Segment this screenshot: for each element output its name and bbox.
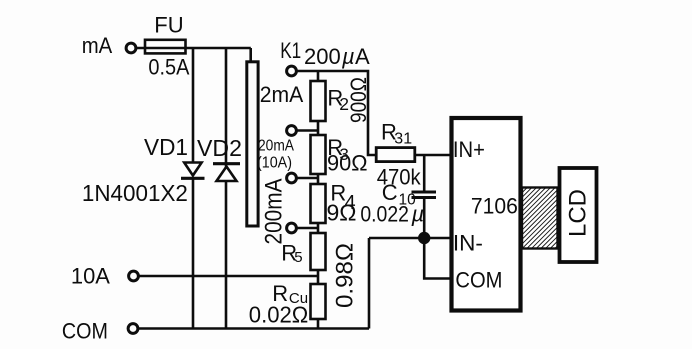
svg-text:K1: K1 — [280, 38, 301, 63]
svg-text:2mA: 2mA — [260, 82, 304, 107]
switch K1 bar — [247, 62, 258, 226]
svg-text:9Ω: 9Ω — [327, 200, 357, 226]
svg-text:VD1: VD1 — [144, 134, 188, 160]
resistor R3 — [311, 135, 326, 174]
wire — [139, 275, 319, 278]
op-amp U1 7106 box — [452, 118, 521, 311]
svg-text:7106: 7106 — [471, 194, 518, 219]
svg-text:200mA: 200mA — [261, 179, 288, 245]
svg-text:200: 200 — [304, 44, 341, 69]
fuse FU — [145, 40, 186, 54]
svg-text:0.98Ω: 0.98Ω — [332, 243, 359, 308]
diode VD2 — [225, 48, 228, 167]
wire — [317, 174, 320, 184]
svg-text:VD2: VD2 — [197, 135, 242, 161]
node contact 2mA — [287, 126, 297, 136]
terminal 10A — [129, 271, 139, 281]
wire — [297, 177, 319, 180]
capacitor C10 — [412, 191, 437, 194]
wire — [415, 154, 450, 157]
junction dot — [419, 233, 429, 243]
wire — [249, 48, 252, 62]
svg-text:µ: µ — [341, 44, 355, 69]
svg-text:0.022: 0.022 — [360, 202, 409, 227]
svg-text:20mA: 20mA — [258, 138, 295, 155]
node contact 200mA — [287, 223, 297, 233]
svg-text:IN+: IN+ — [453, 137, 485, 162]
svg-text:10A: 10A — [71, 264, 110, 289]
wire — [368, 238, 371, 329]
wire — [423, 199, 426, 238]
svg-text:COM: COM — [62, 319, 108, 344]
wire — [423, 155, 426, 191]
wire — [369, 237, 450, 240]
node K1 contact 200uA — [287, 66, 297, 76]
wire — [317, 121, 320, 135]
LCD connector hatch — [522, 188, 558, 249]
wire — [317, 71, 320, 81]
resistor R5 — [311, 233, 326, 270]
svg-text:90Ω: 90Ω — [327, 151, 368, 176]
svg-text:(10A): (10A) — [257, 155, 292, 172]
terminal COM — [128, 324, 138, 334]
LCD box — [560, 168, 597, 262]
svg-text:0.5A: 0.5A — [148, 55, 189, 80]
node contact 20mA — [287, 173, 297, 183]
svg-text:COM: COM — [455, 268, 502, 293]
svg-text:0.02Ω: 0.02Ω — [249, 302, 308, 328]
diode VD1 — [192, 48, 195, 163]
wire — [317, 270, 320, 284]
svg-text:900Ω: 900Ω — [346, 77, 371, 123]
wire — [297, 71, 377, 155]
wire — [297, 129, 319, 132]
svg-text:A: A — [355, 44, 370, 69]
wire — [317, 319, 320, 329]
svg-text:1N4001X2: 1N4001X2 — [82, 180, 188, 206]
wire — [136, 47, 251, 50]
svg-text:IN-: IN- — [453, 231, 483, 256]
resistor R31 — [376, 148, 415, 162]
svg-text:5: 5 — [294, 249, 302, 266]
svg-text:µ: µ — [411, 202, 425, 227]
wire — [297, 227, 319, 230]
svg-text:LCD: LCD — [565, 189, 592, 237]
resistor R2 — [311, 81, 326, 121]
wire — [424, 238, 450, 279]
svg-text:mA: mA — [82, 33, 113, 58]
wire — [138, 327, 369, 330]
wire — [317, 223, 320, 233]
resistor RCu — [311, 284, 326, 319]
terminal mA — [126, 43, 136, 53]
svg-text:FU: FU — [154, 13, 183, 38]
svg-text:31: 31 — [394, 131, 412, 148]
resistor R4 — [311, 184, 326, 223]
